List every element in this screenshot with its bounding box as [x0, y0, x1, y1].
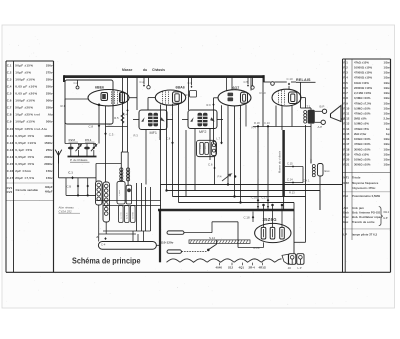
- svg-text:Schéma de principe: Schéma de principe: [72, 257, 141, 266]
- svg-text:Bob. Antenne PO-GO: Bob. Antenne PO-GO: [352, 211, 381, 215]
- svg-text:250v: 250v: [46, 92, 53, 96]
- svg-text:6BE6: 6BE6: [95, 86, 104, 90]
- svg-text:0,05 µF ±20%: 0,05 µF ±20%: [15, 92, 37, 96]
- svg-text:C.3: C.3: [109, 133, 114, 137]
- svg-text:CH.1: CH.1: [384, 211, 390, 214]
- svg-text:L.7: L.7: [216, 137, 220, 141]
- svg-text:470kΩ ±5%: 470kΩ ±5%: [354, 127, 369, 131]
- svg-text:0,05µF ±5%: 0,05µF ±5%: [15, 134, 34, 138]
- svg-text:C.13: C.13: [7, 148, 14, 152]
- svg-text:R.8: R.8: [343, 96, 348, 100]
- svg-text:R.13: R.13: [289, 191, 295, 195]
- svg-text:C.12: C.12: [7, 141, 14, 145]
- svg-text:C.8: C.8: [166, 137, 171, 141]
- svg-text:50µF ±25% trol.Alu: 50µF ±25% trol.Alu: [15, 127, 47, 131]
- svg-text:250v: 250v: [46, 63, 53, 67]
- svg-text:0,5MΩ ±10%: 0,5MΩ ±10%: [354, 106, 371, 110]
- svg-text:P. du Châssis: P. du Châssis: [70, 158, 88, 162]
- svg-text:Osc: Osc: [343, 215, 349, 219]
- svg-text:K2: K2: [341, 117, 345, 121]
- svg-text:C.1: C.1: [7, 63, 12, 67]
- svg-text:0,1µF ±5%: 0,1µF ±5%: [15, 148, 32, 152]
- svg-text:100µF ±15%: 100µF ±15%: [15, 120, 35, 124]
- svg-text:1/2w: 1/2w: [384, 112, 391, 116]
- svg-text:1500v: 1500v: [44, 141, 53, 145]
- svg-text:R.4: R.4: [343, 76, 348, 80]
- svg-text:500v: 500v: [46, 99, 53, 103]
- svg-text:500v: 500v: [46, 120, 53, 124]
- svg-text:1/2w: 1/2w: [384, 101, 391, 105]
- svg-text:2MΩ ±5%: 2MΩ ±5%: [354, 117, 367, 121]
- svg-text:20µF ±7,5%: 20µF ±7,5%: [15, 176, 34, 180]
- svg-text:C.16: C.16: [7, 169, 14, 173]
- svg-text:.46: .46: [287, 266, 291, 270]
- svg-text:1/2w: 1/2w: [384, 81, 391, 85]
- svg-text:C.10: C.10: [287, 77, 293, 81]
- svg-text:10000Ω ±10%: 10000Ω ±10%: [354, 65, 372, 69]
- svg-text:R.2: R.2: [343, 65, 348, 69]
- svg-text:490µF: 490µF: [45, 185, 53, 189]
- svg-text:Triode: Triode: [352, 175, 361, 179]
- svg-text:0,05µF ±10%: 0,05µF ±10%: [15, 141, 36, 145]
- svg-text:1/2w: 1/2w: [384, 137, 391, 141]
- svg-text:1/2w: 1/2w: [384, 60, 391, 64]
- svg-text:C.8: C.8: [7, 113, 12, 117]
- svg-text:MF2: MF2: [343, 181, 349, 185]
- svg-text:R.9: R.9: [343, 101, 348, 105]
- svg-text:C.1: C.1: [68, 171, 73, 175]
- svg-text:C.10: C.10: [7, 127, 14, 131]
- svg-text:R.5: R.5: [343, 81, 348, 85]
- svg-text:1/2w: 1/2w: [384, 122, 391, 126]
- svg-text:470kΩ ±10%: 470kΩ ±10%: [354, 112, 371, 116]
- svg-text:250v: 250v: [46, 106, 53, 110]
- svg-text:R.11: R.11: [343, 112, 349, 116]
- svg-text:Exc.: Exc.: [325, 169, 331, 173]
- svg-text:C.2: C.2: [7, 70, 12, 74]
- svg-text:3000Ω ±10%: 3000Ω ±10%: [354, 147, 371, 151]
- svg-text:3000Ω ±10%: 3000Ω ±10%: [354, 163, 371, 167]
- svg-text:MF1: MF1: [150, 131, 157, 135]
- svg-text:CV2A 252: CV2A 252: [59, 209, 72, 213]
- svg-text:Bob: Bob: [343, 211, 349, 215]
- svg-text:0,05µF ±5%: 0,05µF ±5%: [15, 155, 34, 159]
- svg-text:1/2w: 1/2w: [384, 76, 391, 80]
- svg-text:R.16: R.16: [343, 137, 349, 141]
- svg-text:47kΩ ±10%: 47kΩ ±10%: [354, 60, 369, 64]
- svg-text:R.18: R.18: [254, 121, 260, 125]
- svg-text:47000Ω ±10%: 47000Ω ±10%: [354, 76, 372, 80]
- svg-text:C.14: C.14: [7, 155, 14, 159]
- svg-text:R.14: R.14: [343, 127, 349, 131]
- svg-text:100kΩ ±10%: 100kΩ ±10%: [354, 158, 371, 162]
- svg-text:0,05 µF ±10%: 0,05 µF ±10%: [15, 84, 37, 88]
- svg-text:150v: 150v: [46, 176, 53, 180]
- svg-text:4R1G: 4R1G: [259, 266, 267, 270]
- svg-text:Pot: Pot: [343, 194, 348, 198]
- svg-text:MF1: MF1: [343, 175, 349, 179]
- svg-text:100µF ±10%: 100µF ±10%: [15, 99, 35, 103]
- svg-text:Circuits variable: Circuits variable: [16, 188, 39, 192]
- svg-text:2kΩ 2,5w: 2kΩ 2,5w: [354, 132, 367, 136]
- svg-text:C.B: C.B: [67, 184, 72, 188]
- svg-text:Masse: Masse: [122, 68, 132, 72]
- svg-text:2µF Chim: 2µF Chim: [15, 169, 31, 173]
- svg-text:1000v: 1000v: [44, 134, 53, 138]
- svg-text:C5R: C5R: [200, 144, 202, 149]
- svg-text:0,05µF ±5%: 0,05µF ±5%: [15, 162, 34, 166]
- svg-text:Anti. jam: Anti. jam: [352, 206, 364, 210]
- svg-text:1/2w: 1/2w: [384, 91, 391, 95]
- svg-text:S.14: S.14: [209, 236, 215, 240]
- svg-text:R.17: R.17: [343, 142, 349, 146]
- svg-text:22000Ω ±10%: 22000Ω ±10%: [354, 86, 372, 90]
- svg-text:C.18: C.18: [244, 215, 250, 219]
- svg-text:RELAIS: RELAIS: [296, 78, 311, 82]
- svg-text:35Z6G: 35Z6G: [263, 217, 277, 222]
- svg-text:Bob. Oscillateur répar.: Bob. Oscillateur répar.: [352, 215, 382, 219]
- svg-text:4Q1: 4Q1: [239, 266, 245, 270]
- svg-text:10kΩ ±10%: 10kΩ ±10%: [354, 81, 369, 85]
- svg-text:C.5: C.5: [7, 92, 12, 96]
- svg-text:C.13: C.13: [264, 121, 270, 125]
- svg-text:A.P: A.P: [318, 125, 323, 129]
- svg-text:Exc: Exc: [343, 220, 348, 224]
- svg-text:du: du: [143, 68, 147, 72]
- svg-text:Masse du châssis: Masse du châssis: [278, 150, 282, 173]
- svg-text:6V9: 6V9: [108, 124, 113, 126]
- svg-text:C.3: C.3: [7, 77, 12, 81]
- svg-text:470kΩ ±7,5%: 470kΩ ±7,5%: [354, 101, 372, 105]
- svg-text:C.15: C.15: [287, 161, 293, 165]
- svg-text:R.10: R.10: [343, 106, 349, 110]
- svg-text:C-4: C-4: [101, 242, 106, 246]
- svg-text:CH.1: CH.1: [303, 179, 310, 183]
- svg-text:0,5MΩ ±5%: 0,5MΩ ±5%: [354, 122, 369, 126]
- svg-text:C.6: C.6: [7, 99, 12, 103]
- svg-text:R.13: R.13: [343, 122, 349, 126]
- svg-text:C.9: C.9: [7, 120, 12, 124]
- svg-text:L.P: L.P: [298, 266, 302, 270]
- svg-text:110-120v: 110-120v: [161, 241, 174, 245]
- svg-text:1/2w: 1/2w: [384, 106, 391, 110]
- svg-text:C.17: C.17: [7, 176, 14, 180]
- svg-text:R.10: R.10: [260, 91, 266, 95]
- svg-text:C.14: C.14: [287, 177, 293, 181]
- svg-text:1/2w: 1/2w: [384, 65, 391, 69]
- svg-text:Alu: Alu: [48, 113, 53, 117]
- svg-text:R.3: R.3: [134, 134, 139, 138]
- svg-text:Moyenne fréquence: Moyenne fréquence: [352, 181, 379, 185]
- svg-text:4040: 4040: [216, 266, 223, 270]
- svg-text:250v: 250v: [46, 77, 53, 81]
- svg-text:R.20: R.20: [254, 246, 260, 250]
- svg-text:CITRM: CITRM: [121, 212, 123, 219]
- svg-text:C.11: C.11: [7, 134, 14, 138]
- svg-text:R.3: R.3: [343, 71, 348, 75]
- svg-text:250v: 250v: [46, 84, 53, 88]
- svg-text:100µF ±10%: 100µF ±10%: [15, 77, 35, 81]
- svg-text:C.6: C.6: [208, 163, 213, 167]
- svg-text:6Q7: 6Q7: [233, 86, 240, 90]
- svg-text:1/2w: 1/2w: [384, 158, 391, 162]
- svg-text:R.5: R.5: [114, 116, 119, 120]
- svg-text:R.20: R.20: [343, 158, 349, 162]
- svg-text:CITRM: CITRM: [132, 212, 134, 219]
- svg-text:Transfo de sortie: Transfo de sortie: [352, 220, 375, 224]
- svg-text:CV.2: CV.2: [69, 138, 76, 142]
- svg-text:C.8: C.8: [89, 124, 94, 128]
- svg-text:R.21: R.21: [343, 163, 349, 167]
- svg-text:CV2: CV2: [7, 190, 13, 194]
- svg-text:47kΩ ±10%: 47kΩ ±10%: [354, 152, 369, 156]
- svg-text:1/2w: 1/2w: [384, 96, 391, 100]
- svg-text:50µF ±20%: 50µF ±20%: [15, 106, 33, 110]
- svg-text:1/2w: 1/2w: [384, 71, 391, 75]
- svg-text:Châssis: Châssis: [152, 68, 165, 72]
- svg-text:100kΩ ±10%: 100kΩ ±10%: [354, 137, 371, 141]
- svg-text:490µF: 490µF: [45, 190, 53, 194]
- svg-text:2000v: 2000v: [44, 155, 53, 159]
- svg-text:Potentiomètre 0,5MΩ: Potentiomètre 0,5MΩ: [352, 194, 381, 198]
- svg-text:R.18: R.18: [343, 147, 349, 151]
- svg-text:R.9: R.9: [207, 103, 212, 107]
- svg-text:B.P: B.P: [320, 104, 325, 108]
- svg-text:R.19: R.19: [343, 152, 349, 156]
- svg-text:H.P: H.P: [384, 217, 388, 220]
- svg-text:R.6: R.6: [343, 86, 348, 90]
- svg-text:CV.1: CV.1: [85, 138, 92, 142]
- svg-text:MF2: MF2: [199, 130, 206, 134]
- svg-text:P.4: P.4: [218, 175, 222, 179]
- svg-text:R.7: R.7: [343, 91, 348, 95]
- svg-text:2,5w: 2,5w: [384, 117, 391, 121]
- svg-text:52 ILS: 52 ILS: [126, 212, 128, 219]
- svg-text:47000Ω ±10%: 47000Ω ±10%: [354, 71, 372, 75]
- svg-text:lampe pilote 3T 6,3: lampe pilote 3T 6,3: [352, 232, 377, 236]
- svg-text:C.7: C.7: [7, 106, 12, 110]
- svg-text:5,2kΩ: 5,2kΩ: [119, 190, 121, 196]
- svg-text:S12: S12: [228, 266, 234, 270]
- svg-text:R.1: R.1: [343, 60, 348, 64]
- svg-text:C-4: C-4: [123, 113, 128, 117]
- svg-text:10µF ±5%: 10µF ±5%: [15, 70, 31, 74]
- svg-text:2000v: 2000v: [44, 162, 53, 166]
- svg-text:2,2 MΩ ±10%: 2,2 MΩ ±10%: [354, 91, 372, 95]
- svg-text:Alignements 455kc: Alignements 455kc: [352, 186, 376, 190]
- svg-text:1/2w: 1/2w: [384, 147, 391, 151]
- svg-text:C.15: C.15: [7, 162, 14, 166]
- svg-text:1/2w: 1/2w: [384, 86, 391, 90]
- svg-text:2R-4: 2R-4: [249, 266, 256, 270]
- svg-text:1/2w: 1/2w: [384, 152, 391, 156]
- svg-text:470kΩ ±10%: 470kΩ ±10%: [354, 142, 371, 146]
- svg-text:1/2w: 1/2w: [384, 163, 391, 167]
- svg-text:1/2w: 1/2w: [384, 142, 391, 146]
- svg-text:150v: 150v: [46, 169, 53, 173]
- svg-text:250v: 250v: [46, 148, 53, 152]
- svg-text:50µF ±15%: 50µF ±15%: [15, 63, 33, 67]
- svg-text:6BA6: 6BA6: [176, 85, 185, 89]
- svg-text:LP: LP: [343, 232, 347, 236]
- svg-text:Ant: Ant: [343, 206, 348, 210]
- svg-text:C.4: C.4: [7, 84, 12, 88]
- svg-text:R.15: R.15: [343, 132, 349, 136]
- svg-text:275v: 275v: [46, 70, 53, 74]
- svg-text:0,5MΩ ±10%: 0,5MΩ ±10%: [354, 96, 371, 100]
- svg-text:10µF ±25% trol: 10µF ±25% trol: [15, 113, 40, 117]
